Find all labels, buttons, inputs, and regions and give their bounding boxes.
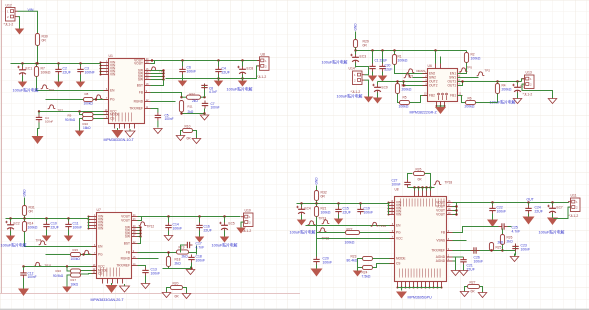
svg-text:GND: GND (354, 23, 358, 31)
svg-text:R10: R10 (185, 125, 191, 129)
svg-text:TP13: TP13 (319, 217, 327, 221)
svg-text:100nF: 100nF (165, 117, 174, 121)
svg-text:R8: R8 (85, 92, 89, 96)
svg-text:TP5: TP5 (467, 66, 473, 70)
svg-text:EC4: EC4 (305, 207, 311, 211)
svg-text:100uF贴片电解: 100uF贴片电解 (227, 87, 253, 92)
svg-text:200kΩ: 200kΩ (402, 88, 412, 92)
svg-text:R27: R27 (470, 281, 476, 285)
svg-text:100kΩ: 100kΩ (321, 211, 331, 215)
svg-text:22UF: 22UF (222, 71, 230, 75)
svg-text:VOUT: VOUT (436, 213, 445, 217)
svg-text:VSNS: VSNS (436, 239, 445, 243)
svg-text:100nF: 100nF (364, 211, 374, 215)
svg-text:2kΩ: 2kΩ (175, 262, 182, 266)
svg-text:GND: GND (315, 177, 319, 185)
svg-text:TRX/REF: TRX/REF (116, 264, 130, 268)
svg-text:22UF: 22UF (535, 210, 543, 214)
svg-text:100nF: 100nF (211, 106, 220, 110)
svg-text:100kΩ: 100kΩ (41, 71, 51, 75)
svg-text:22UF: 22UF (51, 226, 59, 230)
svg-text:100nF: 100nF (521, 248, 531, 252)
svg-text:2kΩ: 2kΩ (507, 240, 514, 244)
svg-text:100NF: 100NF (85, 71, 95, 75)
svg-text:U1: U1 (109, 54, 113, 58)
svg-text:U10: U10 (245, 209, 251, 213)
svg-text:*JL1-2: *JL1-2 (257, 75, 267, 79)
svg-text:TRX/REF: TRX/REF (129, 107, 143, 111)
svg-text:4.7nF: 4.7nF (196, 246, 205, 250)
svg-text:FB: FB (441, 231, 445, 235)
svg-text:MPM38222GR-Z: MPM38222GR-Z (410, 111, 438, 115)
svg-text:200kΩ: 200kΩ (465, 105, 475, 109)
svg-text:0R: 0R (321, 195, 326, 199)
svg-text:7.5kΩ: 7.5kΩ (362, 275, 371, 279)
svg-text:CS: CS (98, 272, 102, 276)
svg-text:EC7: EC7 (557, 206, 563, 210)
svg-text:100nF: 100nF (173, 227, 183, 231)
svg-text:*JL1-2: *JL1-2 (351, 90, 361, 94)
svg-text:100kΩ: 100kΩ (399, 105, 409, 109)
svg-text:CS: CS (396, 262, 400, 266)
svg-text:R16: R16 (56, 269, 62, 273)
svg-text:100nF: 100nF (497, 210, 507, 214)
svg-text:0R: 0R (363, 44, 368, 48)
svg-text:TP4: TP4 (36, 239, 42, 243)
svg-text:VOUT: VOUT (134, 62, 143, 66)
svg-text:R5: R5 (403, 96, 407, 100)
svg-text:80.4kΩ: 80.4kΩ (347, 259, 358, 263)
svg-text:R15: R15 (73, 248, 79, 252)
svg-text:FB1: FB1 (450, 94, 456, 98)
svg-text:2kΩ: 2kΩ (182, 255, 189, 259)
svg-text:0R: 0R (175, 295, 180, 299)
svg-text:100kΩ: 100kΩ (398, 59, 408, 63)
svg-text:R26: R26 (416, 168, 422, 172)
svg-text:EC9: EC9 (382, 86, 388, 90)
svg-text:VOUT: VOUT (121, 219, 130, 223)
svg-text:100nF: 100nF (151, 272, 161, 276)
svg-text:U11: U11 (571, 194, 577, 198)
svg-text:100nF: 100nF (73, 226, 83, 230)
svg-text:FB2: FB2 (429, 94, 435, 98)
svg-text:MODE: MODE (396, 257, 406, 261)
svg-text:DRAIN: DRAIN (417, 69, 426, 73)
svg-text:16kΩ: 16kΩ (71, 282, 79, 286)
svg-text:100uF贴片电解: 100uF贴片电解 (539, 230, 565, 235)
svg-text:R25: R25 (496, 246, 502, 250)
svg-text:PG: PG (110, 98, 115, 102)
svg-text:BST: BST (137, 84, 143, 88)
svg-text:EN: EN (98, 245, 103, 249)
svg-text:100kΩ: 100kΩ (71, 257, 81, 261)
svg-text:0R: 0R (42, 39, 47, 43)
svg-text:VIN: VIN (396, 213, 402, 217)
svg-text:U13: U13 (526, 71, 532, 75)
svg-text:U14: U14 (349, 67, 355, 71)
svg-text:100uF贴片电解: 100uF贴片电解 (322, 60, 348, 65)
svg-text:100uF贴片电解: 100uF贴片电解 (13, 88, 39, 93)
svg-text:EC2: EC2 (14, 222, 20, 226)
svg-text:R20: R20 (173, 282, 179, 286)
svg-text:TP2: TP2 (485, 69, 491, 73)
svg-text:SW: SW (138, 78, 143, 82)
svg-text:100kΩ: 100kΩ (84, 102, 94, 106)
svg-text:U12: U12 (6, 4, 12, 8)
svg-text:R11: R11 (188, 105, 193, 109)
svg-text:100uF贴片电解: 100uF贴片电解 (1, 243, 27, 248)
svg-text:*JL1-2: *JL1-2 (4, 23, 14, 27)
svg-text:2kΩ: 2kΩ (192, 99, 198, 103)
svg-text:VIN: VIN (98, 227, 104, 231)
svg-text:0R: 0R (187, 137, 192, 141)
svg-text:MPM3833GN-10-T: MPM3833GN-10-T (104, 138, 135, 142)
svg-text:200kΩ: 200kΩ (502, 88, 512, 92)
svg-text:TRX/REF: TRX/REF (431, 249, 445, 253)
svg-text:GND: GND (23, 189, 27, 197)
svg-text:TP18: TP18 (445, 181, 453, 185)
svg-text:RGND: RGND (134, 100, 144, 104)
svg-text:22UF: 22UF (385, 68, 393, 72)
svg-text:R6: R6 (468, 97, 472, 101)
svg-text:100nF: 100nF (196, 259, 206, 263)
svg-text:R12: R12 (190, 92, 196, 96)
svg-text:100nF: 100nF (323, 261, 333, 265)
svg-text:U6: U6 (428, 64, 432, 68)
svg-text:RGND: RGND (121, 257, 131, 261)
svg-text:100kΩ: 100kΩ (28, 226, 38, 230)
svg-text:OUT1: OUT1 (447, 84, 456, 88)
svg-text:MPW3833GAN-20-T: MPW3833GAN-20-T (91, 298, 125, 302)
svg-text:16kΩ: 16kΩ (83, 126, 91, 130)
svg-text:TP3: TP3 (49, 88, 55, 92)
svg-text:100uF贴片电解: 100uF贴片电解 (290, 230, 316, 235)
svg-text:C1 22UF: C1 22UF (375, 59, 388, 63)
svg-text:*JL1-2: *JL1-2 (523, 93, 533, 97)
svg-text:R9: R9 (68, 114, 72, 118)
svg-text:OUT: OUT (527, 198, 534, 202)
svg-text:100nF: 100nF (28, 275, 37, 279)
svg-text:TP16: TP16 (379, 224, 387, 228)
svg-text:VIN: VIN (110, 73, 116, 77)
svg-text:0R: 0R (471, 290, 476, 294)
svg-text:PG: PG (98, 253, 103, 257)
svg-text:100kΩ: 100kΩ (471, 57, 481, 61)
svg-text:TP12: TP12 (147, 225, 155, 229)
svg-text:100kΩ: 100kΩ (345, 241, 355, 245)
svg-text:U8: U8 (261, 53, 265, 57)
svg-text:90.9kΩ: 90.9kΩ (53, 274, 64, 278)
svg-text:100nF: 100nF (187, 70, 197, 74)
svg-text:2kΩ: 2kΩ (498, 241, 504, 245)
svg-text:U7: U7 (97, 208, 101, 212)
svg-text:FB: FB (139, 91, 143, 95)
svg-text:R19: R19 (179, 246, 185, 250)
svg-text:AGND: AGND (436, 259, 446, 263)
svg-text:OUT2: OUT2 (429, 84, 438, 88)
svg-text:100uF贴片电解: 100uF贴片电解 (212, 243, 238, 248)
svg-text:EN: EN (110, 89, 115, 93)
svg-text:22UF: 22UF (204, 229, 212, 233)
svg-text:100uF贴片电解: 100uF贴片电解 (337, 94, 363, 99)
svg-text:EC3: EC3 (360, 55, 367, 59)
svg-text:4.7nF: 4.7nF (209, 90, 217, 94)
svg-text:22UF: 22UF (63, 71, 71, 75)
svg-text:4.7nF: 4.7nF (512, 230, 521, 234)
svg-text:BST: BST (124, 242, 130, 246)
svg-text:100nF: 100nF (392, 183, 401, 187)
svg-text:U8: U8 (395, 188, 399, 192)
svg-text:22UF: 22UF (343, 211, 351, 215)
svg-text:0R: 0R (29, 210, 34, 214)
svg-text:PG: PG (396, 231, 401, 235)
svg-text:100nF: 100nF (45, 119, 53, 123)
svg-text:100nF: 100nF (474, 260, 484, 264)
svg-text:VCC: VCC (396, 237, 403, 241)
svg-text:EN: EN (396, 224, 401, 228)
svg-text:SW: SW (125, 235, 130, 239)
svg-text:0R: 0R (418, 178, 423, 182)
svg-text:90.9kΩ: 90.9kΩ (65, 118, 76, 122)
svg-text:EC8: EC8 (247, 67, 254, 71)
svg-text:CS: CS (110, 117, 114, 121)
svg-text:FB: FB (126, 251, 130, 255)
svg-text:MPM3695GPU: MPM3695GPU (408, 296, 433, 300)
svg-text:EC5: EC5 (229, 222, 235, 226)
svg-text:R22: R22 (347, 228, 353, 232)
svg-text:EC1: EC1 (26, 67, 33, 71)
svg-text:*JL1-2: *JL1-2 (569, 214, 579, 218)
